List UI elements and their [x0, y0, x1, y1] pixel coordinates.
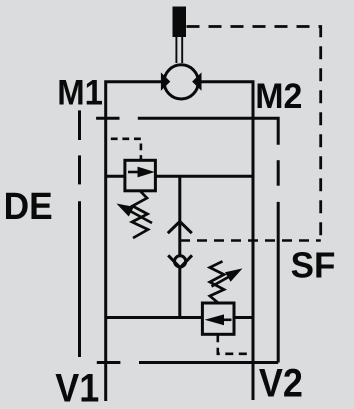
- relief valve RV1 arrow: [128, 167, 155, 178]
- hydraulic motor U1 (circle): [164, 65, 198, 99]
- flow arrow chevron (up): [168, 222, 192, 234]
- spring RV2: [210, 261, 224, 302]
- motor triangle right: [192, 72, 201, 90]
- tick on M1 line (top): [96, 117, 119, 120]
- check valve CV1 seat: [168, 255, 192, 267]
- boundary line left DE (dash-dash-solid): [78, 110, 81, 357]
- motor triangle left: [161, 72, 170, 90]
- relief valve RV2 box: [202, 303, 234, 334]
- wire M2 main line (motor right, down to V2): [198, 82, 253, 400]
- svg-text:V2: V2: [259, 362, 303, 406]
- adjust arrow RV2: [212, 268, 243, 286]
- wire inner top horizontal: [138, 118, 278, 145]
- boundary line right (solid-dash-solid): [277, 160, 280, 362]
- wire check valve branch: [178, 176, 181, 255]
- svg-text:V1: V1: [55, 367, 99, 409]
- pilot line node (dashed horizontal to SF): [180, 239, 321, 242]
- motor shaft end: [173, 7, 187, 38]
- wire M1 main line (motor left, down to V1): [106, 82, 164, 401]
- tick on V1 line (bottom): [97, 361, 121, 364]
- relief valve RV2 arrow: [205, 314, 232, 325]
- svg-text:M2: M2: [255, 78, 302, 117]
- svg-text:M1: M1: [57, 74, 103, 113]
- svg-text:DE: DE: [4, 185, 53, 227]
- relief valve RV1 box: [125, 160, 155, 191]
- wire inner bottom rail: [139, 361, 278, 364]
- adjust arrow RV1: [116, 204, 152, 224]
- wire inner bottom horizontal left: [106, 316, 203, 319]
- wire inner bottom horizontal right: [234, 316, 253, 319]
- pilot line SF (long dashed from shaft to SF corner): [187, 27, 321, 241]
- motor shaft (double line): [176, 37, 182, 64]
- wire relief RV1 line left: [106, 175, 125, 178]
- wire relief RV1 line right: [155, 175, 253, 178]
- svg-text:SF: SF: [291, 245, 336, 286]
- pilot line RV2 (dashed to V2 line): [218, 334, 251, 354]
- spring RV1: [132, 191, 148, 238]
- check valve CV1 ball: [175, 256, 186, 267]
- wire check valve branch lower: [178, 268, 181, 318]
- pilot line RV1 (dashed to M1 line): [111, 139, 141, 160]
